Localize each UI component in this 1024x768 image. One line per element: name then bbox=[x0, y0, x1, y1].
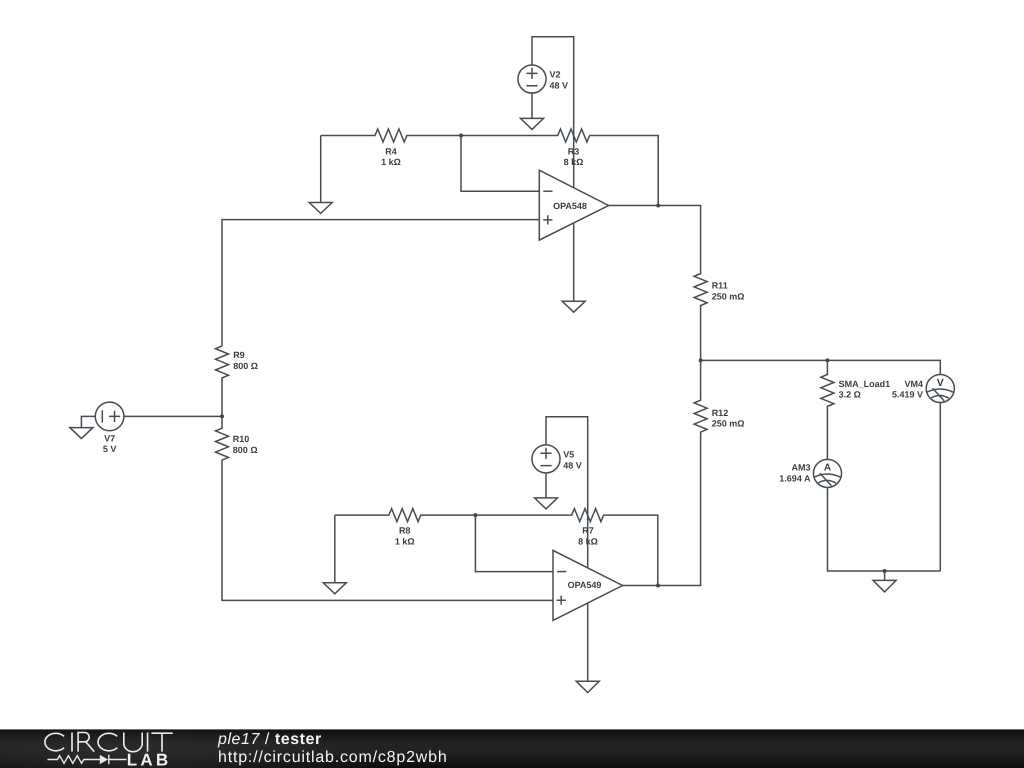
resistor R7 bbox=[475, 509, 657, 586]
voltage source V2 bbox=[518, 65, 546, 93]
wire OPA548 non-inverting input from R9 node bbox=[222, 220, 539, 346]
svg-text:1 kΩ: 1 kΩ bbox=[381, 157, 401, 167]
ground at V7 bbox=[70, 428, 93, 439]
wire V2 top loop to OPA548 V+ power pin bbox=[532, 37, 574, 188]
node junction R8/R7/inverting bbox=[473, 513, 477, 517]
wire OPA549 V- power pin to ground bbox=[587, 603, 589, 681]
svg-text:V5: V5 bbox=[563, 449, 574, 459]
wire VM4 bottom lead bbox=[939, 403, 941, 571]
svg-text:800 Ω: 800 Ω bbox=[233, 445, 258, 455]
footer bar bbox=[0, 729, 1024, 768]
wire OPA548 V- power pin to ground bbox=[573, 223, 575, 301]
OPA548 minus mark bbox=[543, 190, 552, 192]
node junction R4/R3/inverting bbox=[459, 134, 463, 138]
svg-text:250 mΩ: 250 mΩ bbox=[712, 419, 745, 429]
svg-text:1.694 A: 1.694 A bbox=[779, 474, 811, 484]
ground top-left (R4 left end) bbox=[309, 136, 332, 214]
svg-text:R7: R7 bbox=[582, 525, 594, 535]
svg-text:LAB: LAB bbox=[127, 750, 172, 768]
voltage source V7 bbox=[95, 402, 124, 431]
CircuitLab logo resistor-diode glyph bbox=[47, 755, 126, 764]
node junction OPA549 output bbox=[656, 584, 660, 588]
wire V7 plus lead to node bbox=[124, 415, 222, 417]
footer logo glow bbox=[0, 714, 378, 768]
node junction OPA548 output bbox=[656, 204, 660, 208]
node junction bottom ground bbox=[883, 569, 887, 573]
svg-text:48 V: 48 V bbox=[550, 80, 569, 90]
voltage source V5 bbox=[532, 445, 560, 473]
ground under V2 bbox=[521, 118, 544, 129]
svg-text:AM3: AM3 bbox=[791, 462, 810, 472]
svg-text:http://circuitlab.com/c8p2wbh: http://circuitlab.com/c8p2wbh bbox=[218, 749, 448, 766]
wire V5 top loop to OPA549 V+ power pin bbox=[546, 417, 588, 568]
ammeter AM3 bbox=[813, 459, 841, 487]
svg-text:A: A bbox=[824, 463, 831, 474]
resistor R10 + wire to OPA549 non-inverting input bbox=[216, 416, 554, 600]
wire OPA549 inverting input bbox=[475, 515, 553, 572]
svg-text:8 kΩ: 8 kΩ bbox=[564, 157, 584, 167]
op-amp U1 OPA548 bbox=[539, 170, 608, 240]
ground R8 left end bbox=[323, 515, 346, 594]
resistor R12 + wire to OPA549 output bbox=[623, 360, 708, 585]
node junction V7/R9/R10 bbox=[220, 414, 224, 418]
wire mid node row to VM4 bbox=[701, 360, 941, 374]
node junction SMA_Load1 top bbox=[825, 358, 829, 362]
svg-text:OPA548: OPA548 bbox=[553, 201, 587, 211]
resistor R3 bbox=[461, 129, 658, 206]
svg-text:VM4: VM4 bbox=[904, 379, 923, 389]
svg-text:ple17 / tester: ple17 / tester bbox=[217, 731, 322, 748]
svg-text:SMA_Load1: SMA_Load1 bbox=[839, 379, 891, 389]
OPA548 plus mark bbox=[543, 215, 552, 224]
svg-text:48 V: 48 V bbox=[563, 460, 582, 470]
node junction R11/R12 bbox=[699, 358, 703, 362]
svg-text:5.419 V: 5.419 V bbox=[892, 390, 923, 400]
wire V7 minus lead bbox=[81, 416, 95, 427]
resistor R4 bbox=[321, 129, 461, 142]
wire OPA548 output + resistor R11 bbox=[609, 206, 708, 361]
wire OPA548 inverting input bbox=[461, 136, 539, 192]
voltmeter VM4 bbox=[926, 374, 954, 402]
ground under OPA549 bbox=[576, 681, 599, 692]
svg-text:V2: V2 bbox=[550, 70, 561, 80]
svg-text:R8: R8 bbox=[399, 525, 411, 535]
svg-text:V7: V7 bbox=[104, 433, 115, 443]
svg-text:OPA549: OPA549 bbox=[568, 580, 602, 590]
wire V5 minus lead bbox=[545, 473, 547, 498]
resistor R8 bbox=[335, 509, 476, 522]
svg-text:800 Ω: 800 Ω bbox=[233, 361, 258, 371]
svg-text:R12: R12 bbox=[712, 408, 729, 418]
svg-text:R10: R10 bbox=[233, 434, 250, 444]
svg-text:3.2 Ω: 3.2 Ω bbox=[839, 390, 861, 400]
svg-text:8 kΩ: 8 kΩ bbox=[578, 537, 598, 547]
svg-text:R4: R4 bbox=[385, 146, 397, 156]
resistor SMA_Load1 bbox=[821, 360, 834, 459]
svg-text:V: V bbox=[937, 377, 944, 389]
resistor R9 (zigzag part, column continues) bbox=[216, 346, 229, 416]
CircuitLab logo CIRCUIT (drawn letters) bbox=[45, 733, 173, 752]
op-amp U2 OPA549 bbox=[553, 550, 623, 620]
wire AM3 bottom to ground row bbox=[828, 488, 941, 572]
OPA549 plus mark bbox=[557, 596, 566, 605]
svg-text:R9: R9 bbox=[233, 350, 245, 360]
svg-text:R11: R11 bbox=[712, 280, 728, 290]
ground under OPA548 bbox=[562, 301, 585, 312]
ground bottom-right bbox=[873, 571, 896, 592]
wire V2 minus lead bbox=[531, 93, 533, 118]
svg-text:250 mΩ: 250 mΩ bbox=[712, 291, 745, 301]
ground under V5 bbox=[535, 498, 558, 509]
svg-text:5 V: 5 V bbox=[103, 444, 117, 454]
svg-text:1 kΩ: 1 kΩ bbox=[395, 537, 415, 547]
OPA549 minus mark bbox=[557, 571, 566, 573]
svg-text:R3: R3 bbox=[568, 146, 580, 156]
